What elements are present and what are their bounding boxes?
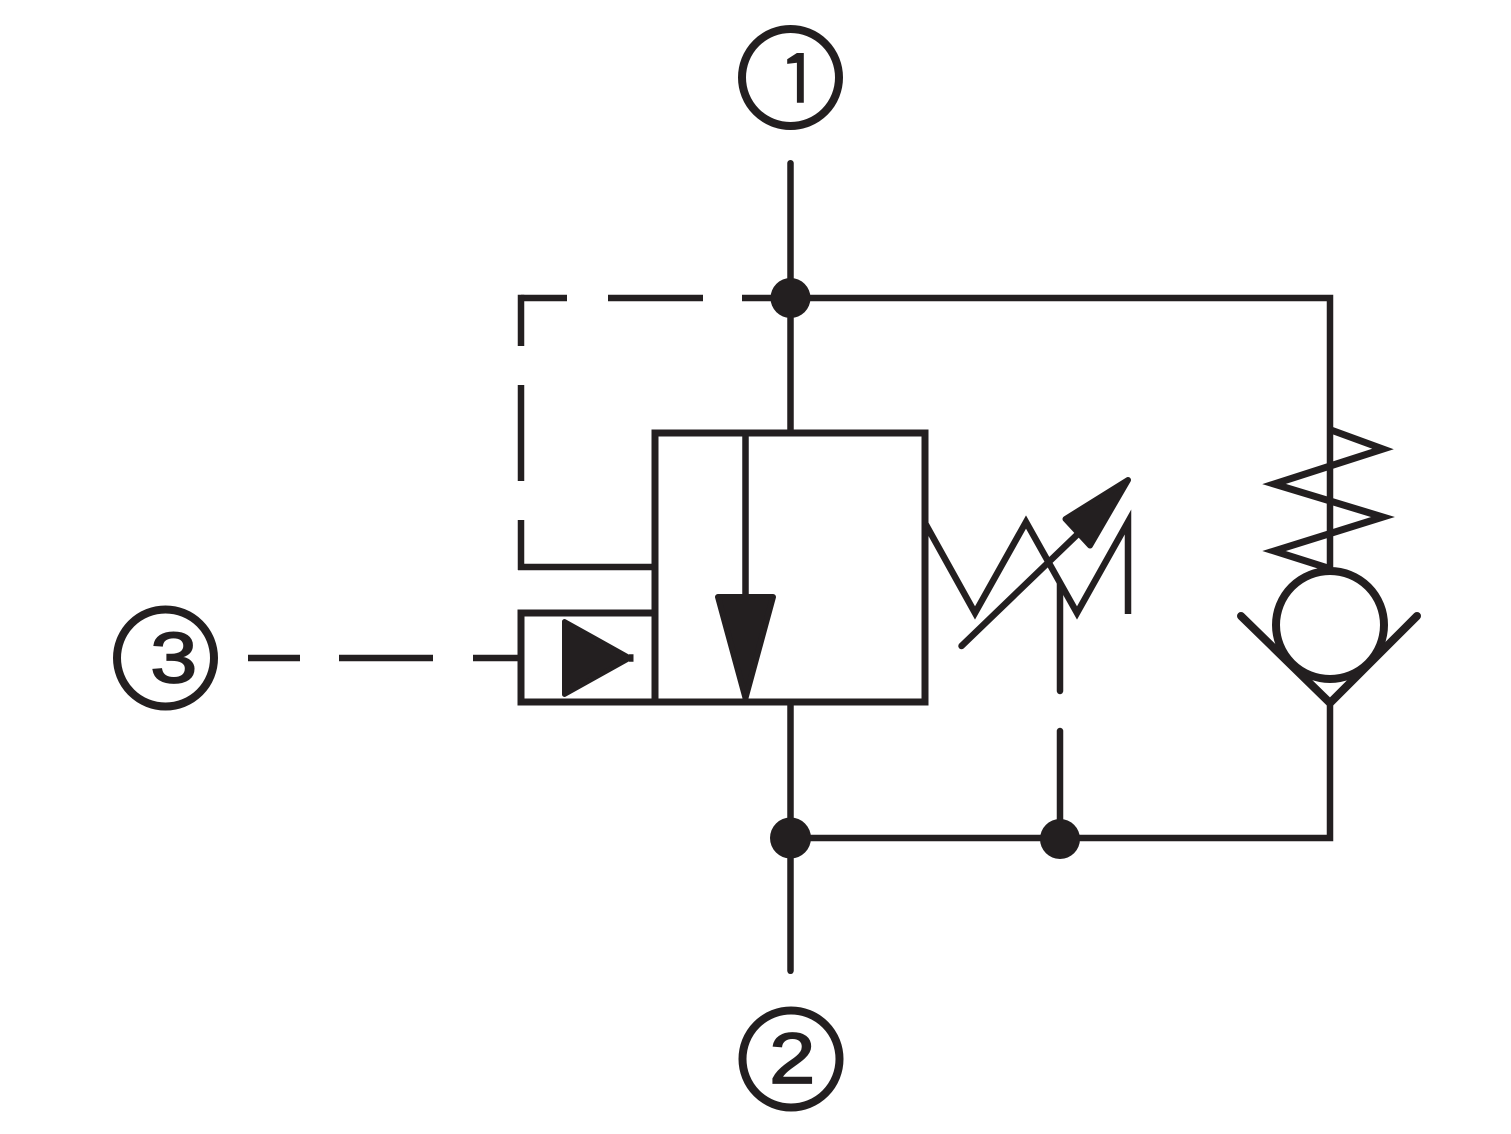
svg-text:3: 3 (150, 620, 197, 699)
svg-text:2: 2 (769, 1020, 815, 1099)
